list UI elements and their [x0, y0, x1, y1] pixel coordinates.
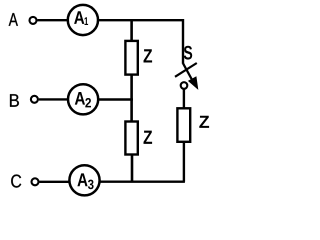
switch contact	[181, 82, 188, 89]
resistor Z3	[177, 108, 190, 142]
wire	[130, 19, 133, 41]
node A	[9, 13, 18, 26]
wire	[183, 89, 185, 108]
terminal B	[31, 96, 38, 103]
switch S	[175, 63, 197, 88]
wire	[37, 19, 68, 21]
label Z2	[144, 131, 153, 144]
wire	[131, 155, 134, 183]
wire	[100, 180, 185, 182]
wire	[183, 142, 185, 182]
wire	[130, 99, 133, 121]
wire	[39, 98, 68, 100]
resistor Z2	[125, 122, 137, 155]
ammeter A2	[68, 84, 98, 114]
node B	[10, 94, 19, 107]
ammeter A3	[69, 165, 99, 195]
resistor Z1	[125, 41, 137, 75]
label Z3	[199, 116, 209, 128]
terminal A	[30, 17, 37, 24]
ammeter A1	[68, 5, 98, 35]
wire	[39, 181, 69, 183]
node C	[11, 175, 21, 188]
terminal C	[32, 178, 39, 185]
label S	[184, 46, 193, 60]
label Z1	[144, 49, 153, 62]
wire	[130, 75, 133, 100]
wire	[98, 98, 133, 100]
wire	[98, 20, 183, 64]
